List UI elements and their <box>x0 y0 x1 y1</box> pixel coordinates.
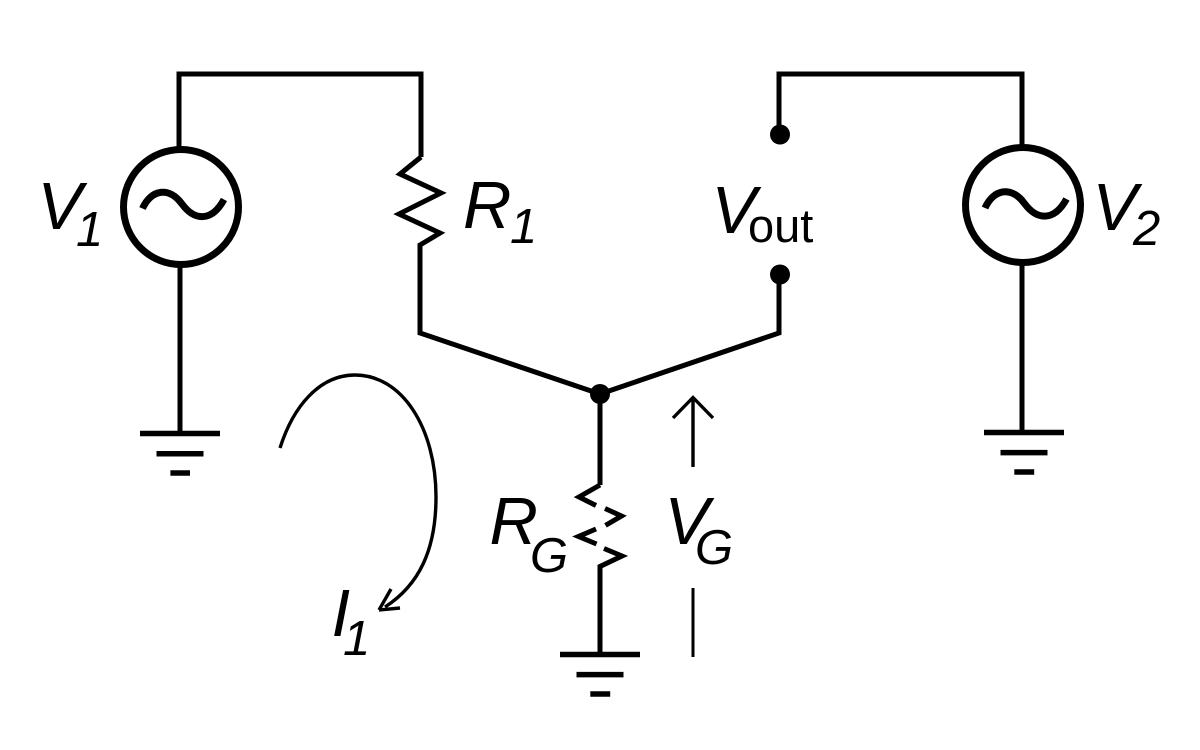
svg-text:1: 1 <box>343 612 370 666</box>
svg-text:1: 1 <box>76 203 103 257</box>
svg-text:G: G <box>530 529 568 583</box>
svg-text:1: 1 <box>510 200 537 254</box>
svg-text:2: 2 <box>1132 202 1160 256</box>
svg-text:G: G <box>695 521 733 575</box>
svg-text:R: R <box>463 168 511 243</box>
svg-text:out: out <box>748 199 813 252</box>
